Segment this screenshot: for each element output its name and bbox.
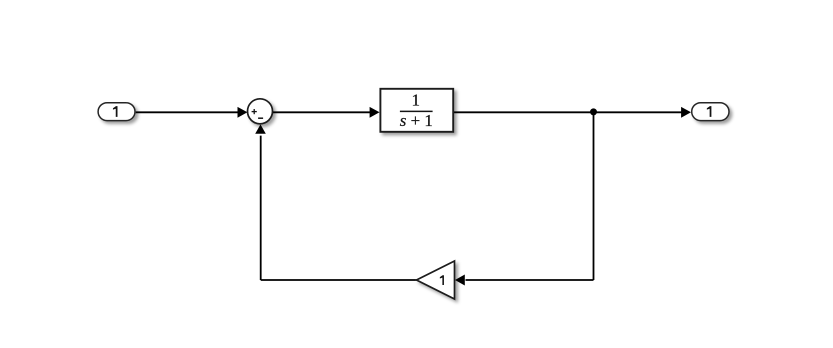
svg-text:s + 1: s + 1 [400,111,433,130]
svg-text:1: 1 [412,91,421,110]
